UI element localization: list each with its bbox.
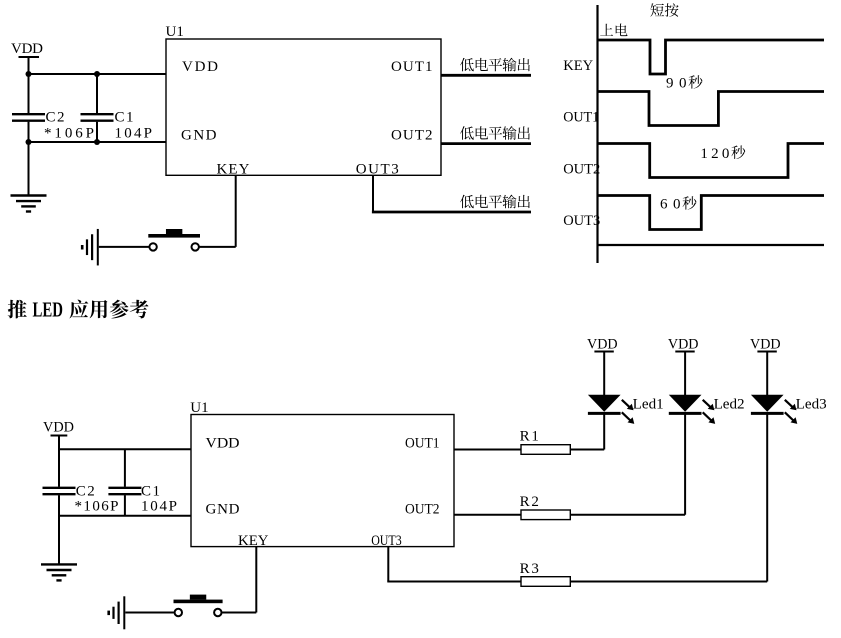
svg-text:OUT2: OUT2 <box>391 128 433 144</box>
svg-text:U1: U1 <box>166 24 184 40</box>
svg-text:GND: GND <box>181 128 217 144</box>
svg-text:VDD: VDD <box>43 420 74 436</box>
svg-text:VDD: VDD <box>668 337 699 353</box>
svg-text:OUT1: OUT1 <box>405 435 440 451</box>
svg-text:GND: GND <box>206 502 240 518</box>
svg-text:C2: C2 <box>76 484 95 500</box>
svg-text:C2: C2 <box>46 110 65 126</box>
svg-text:OUT1: OUT1 <box>391 59 433 75</box>
svg-text:KEY: KEY <box>217 162 250 178</box>
svg-text:R3: R3 <box>520 561 539 577</box>
svg-text:U1: U1 <box>190 400 208 416</box>
svg-text:R1: R1 <box>520 429 539 445</box>
svg-text:VDD: VDD <box>206 435 240 451</box>
svg-text:VDD: VDD <box>750 337 781 353</box>
svg-text:104P: 104P <box>115 126 153 142</box>
svg-text:KEY: KEY <box>238 533 269 549</box>
svg-text:120: 120 <box>700 146 729 162</box>
svg-text:R2: R2 <box>520 494 539 510</box>
svg-text:OUT3: OUT3 <box>371 533 402 549</box>
svg-text:OUT2: OUT2 <box>563 161 600 177</box>
svg-text:Led2: Led2 <box>714 397 745 413</box>
svg-text:C1: C1 <box>141 484 160 500</box>
svg-text:OUT3: OUT3 <box>563 213 600 229</box>
svg-text:VDD: VDD <box>11 41 43 57</box>
svg-text:104P: 104P <box>141 499 177 515</box>
svg-text:VDD: VDD <box>182 59 218 75</box>
svg-text:*106P: *106P <box>75 499 119 515</box>
svg-text:LED: LED <box>33 298 64 322</box>
svg-text:VDD: VDD <box>587 337 618 353</box>
svg-text:Led3: Led3 <box>796 397 827 413</box>
svg-text:Led1: Led1 <box>633 397 664 413</box>
svg-text:OUT2: OUT2 <box>405 502 440 518</box>
svg-text:OUT1: OUT1 <box>563 110 599 126</box>
svg-text:C1: C1 <box>115 110 134 126</box>
svg-text:OUT3: OUT3 <box>356 162 399 178</box>
svg-text:KEY: KEY <box>563 58 593 74</box>
